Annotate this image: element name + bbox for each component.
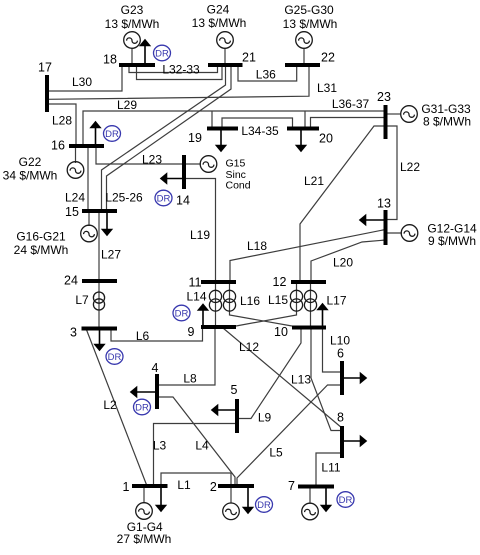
svg-text:L6: L6 xyxy=(136,329,150,343)
svg-text:9 $/MWh: 9 $/MWh xyxy=(428,234,476,248)
svg-text:2: 2 xyxy=(210,480,217,494)
svg-text:L9: L9 xyxy=(258,411,272,425)
svg-text:G25-G30: G25-G30 xyxy=(284,3,334,17)
svg-text:L13: L13 xyxy=(291,373,311,387)
svg-text:DR: DR xyxy=(157,193,171,204)
svg-text:13 $/MWh: 13 $/MWh xyxy=(192,16,247,30)
svg-text:DR: DR xyxy=(105,129,119,140)
svg-text:12: 12 xyxy=(273,275,287,289)
svg-text:27 $/MWh: 27 $/MWh xyxy=(117,532,172,546)
svg-text:16: 16 xyxy=(51,139,65,153)
svg-text:13 $/MWh: 13 $/MWh xyxy=(105,17,160,31)
svg-text:L29: L29 xyxy=(117,98,137,112)
svg-text:13 $/MWh: 13 $/MWh xyxy=(283,17,338,31)
svg-text:L25-26: L25-26 xyxy=(105,191,143,205)
svg-text:3: 3 xyxy=(70,325,77,339)
svg-text:L34-35: L34-35 xyxy=(241,124,279,138)
svg-text:DR: DR xyxy=(155,48,169,59)
svg-text:14: 14 xyxy=(176,194,190,208)
svg-text:11: 11 xyxy=(189,276,202,290)
svg-text:L19: L19 xyxy=(190,228,210,242)
svg-text:L16: L16 xyxy=(240,294,260,308)
svg-text:DR: DR xyxy=(175,308,189,319)
svg-text:L4: L4 xyxy=(195,439,209,453)
svg-text:10: 10 xyxy=(274,325,288,339)
svg-text:L36: L36 xyxy=(256,68,276,82)
svg-text:22: 22 xyxy=(321,51,335,65)
svg-text:L22: L22 xyxy=(400,160,420,174)
svg-text:17: 17 xyxy=(38,61,52,75)
svg-text:24 $/MWh: 24 $/MWh xyxy=(14,243,69,257)
svg-text:L36-37: L36-37 xyxy=(332,97,370,111)
svg-text:L21: L21 xyxy=(304,174,324,188)
svg-text:L23: L23 xyxy=(142,153,162,167)
svg-text:L8: L8 xyxy=(183,372,197,386)
svg-text:1: 1 xyxy=(123,480,130,494)
svg-text:L17: L17 xyxy=(326,294,346,308)
svg-text:L24: L24 xyxy=(65,191,85,205)
svg-text:DR: DR xyxy=(108,352,122,363)
svg-text:G16-G21: G16-G21 xyxy=(16,230,66,244)
svg-text:L3: L3 xyxy=(153,439,167,453)
svg-text:7: 7 xyxy=(288,479,295,493)
svg-text:L18: L18 xyxy=(247,239,267,253)
svg-text:L32-33: L32-33 xyxy=(162,63,200,77)
svg-text:Cond: Cond xyxy=(226,180,251,192)
svg-text:13: 13 xyxy=(377,197,391,211)
svg-text:G15: G15 xyxy=(226,158,246,170)
svg-text:G22: G22 xyxy=(19,155,42,169)
svg-text:L20: L20 xyxy=(333,256,353,270)
svg-text:L31: L31 xyxy=(317,81,337,95)
svg-text:L12: L12 xyxy=(239,340,259,354)
svg-text:18: 18 xyxy=(103,53,117,67)
svg-text:G23: G23 xyxy=(121,3,144,17)
svg-text:8: 8 xyxy=(337,411,344,425)
svg-text:L10: L10 xyxy=(330,334,350,348)
svg-text:23: 23 xyxy=(377,90,391,104)
svg-text:L1: L1 xyxy=(177,478,191,492)
svg-text:DR: DR xyxy=(257,500,271,511)
svg-text:L30: L30 xyxy=(72,75,92,89)
svg-text:34 $/MWh: 34 $/MWh xyxy=(3,169,58,183)
svg-text:4: 4 xyxy=(152,361,159,375)
svg-text:19: 19 xyxy=(188,131,202,145)
svg-text:8 $/MWh: 8 $/MWh xyxy=(423,115,471,129)
svg-text:L7: L7 xyxy=(75,293,89,307)
svg-text:15: 15 xyxy=(65,205,79,219)
svg-text:L14: L14 xyxy=(186,290,206,304)
svg-text:20: 20 xyxy=(319,132,333,146)
svg-text:L28: L28 xyxy=(52,114,72,128)
svg-text:DR: DR xyxy=(339,495,353,506)
svg-text:DR: DR xyxy=(135,402,149,413)
svg-text:24: 24 xyxy=(64,274,78,288)
svg-text:L2: L2 xyxy=(103,398,117,412)
svg-text:L5: L5 xyxy=(269,446,283,460)
svg-text:21: 21 xyxy=(242,51,256,65)
svg-text:L27: L27 xyxy=(101,248,121,262)
svg-text:G24: G24 xyxy=(207,3,230,17)
svg-text:L11: L11 xyxy=(321,461,340,475)
svg-text:6: 6 xyxy=(337,347,344,361)
svg-text:L15: L15 xyxy=(268,293,288,307)
svg-text:5: 5 xyxy=(231,383,238,397)
svg-text:9: 9 xyxy=(188,325,195,339)
